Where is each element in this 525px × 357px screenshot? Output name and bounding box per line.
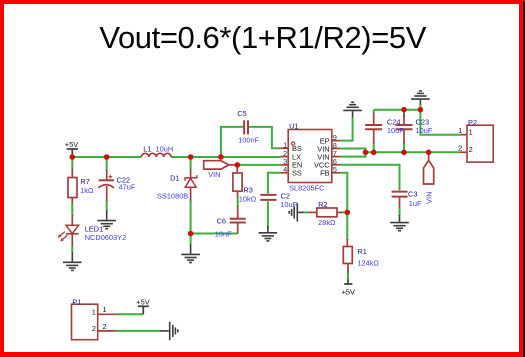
svg-text:2: 2 bbox=[92, 324, 96, 333]
wire C24 top lead upper bbox=[373, 110, 375, 115]
wire VIN pin 8 to output rail bbox=[340, 149, 366, 153]
ground under C2 bbox=[259, 226, 278, 241]
ground left of R2 (rotated, opens right) bbox=[289, 203, 303, 222]
node C24 rail junction bbox=[371, 150, 377, 156]
resistor R1 bbox=[343, 239, 352, 273]
svg-text:10kΩ: 10kΩ bbox=[239, 195, 257, 204]
capacitor C24 bbox=[365, 114, 382, 145]
svg-text:P1: P1 bbox=[72, 298, 81, 307]
wire C5 loop: riser, top run into left plate bbox=[221, 127, 243, 157]
node C23 rail junction bbox=[401, 150, 407, 156]
power +5V symbol at P1 pin1 bbox=[138, 306, 149, 314]
node D1 junction bbox=[188, 154, 194, 160]
node C5 riser junction bbox=[218, 154, 224, 160]
svg-text:10uF: 10uF bbox=[387, 126, 404, 135]
node VIN flag rail junction bbox=[426, 150, 432, 156]
connector P1 bbox=[72, 304, 116, 340]
svg-text:P2: P2 bbox=[468, 118, 477, 127]
svg-text:+5V: +5V bbox=[136, 297, 149, 306]
border frame bottom bbox=[0, 352, 525, 357]
svg-text:10uF: 10uF bbox=[416, 126, 433, 135]
node FB/R2 junction bbox=[345, 210, 351, 216]
wire D1 anode down to ground bbox=[190, 200, 192, 246]
svg-text:1: 1 bbox=[92, 307, 96, 316]
border frame top bbox=[0, 0, 525, 4]
wire D1 cathode drop from rail bbox=[190, 157, 192, 170]
svg-text:2: 2 bbox=[458, 144, 462, 153]
LED LED1 bbox=[58, 215, 79, 247]
node bus/ground/P2 junction bbox=[418, 107, 424, 113]
wire VCC pin 6 to C3 bbox=[340, 165, 400, 191]
wire R2 left lead from ground bbox=[303, 211, 310, 213]
diode D1 (schottky) bbox=[185, 169, 197, 201]
svg-text:NCD0603Y2: NCD0603Y2 bbox=[85, 233, 127, 242]
power +5V symbol top-left bbox=[67, 149, 78, 155]
wire R3 bottom lead segment bbox=[237, 197, 239, 208]
wire C23 bottom lead to rail bbox=[403, 143, 405, 152]
svg-text:100nF: 100nF bbox=[238, 136, 259, 145]
svg-text:10uH: 10uH bbox=[156, 145, 174, 154]
resistor R2 (horizontal) bbox=[308, 208, 343, 217]
svg-text:SS: SS bbox=[292, 169, 302, 178]
svg-text:1: 1 bbox=[458, 126, 462, 135]
svg-text:R3: R3 bbox=[243, 186, 252, 195]
wire LED cathode to ground bbox=[71, 246, 73, 254]
svg-text:10nF: 10nF bbox=[215, 229, 232, 238]
svg-text:SS1080B: SS1080B bbox=[157, 191, 188, 200]
wire top cap bus C24 to gnd riser bbox=[374, 109, 421, 111]
ground right of P1 pin2 (rotated, opens left) bbox=[160, 322, 178, 341]
node VIN/R3/EN junction bbox=[235, 162, 241, 168]
svg-text:2: 2 bbox=[469, 145, 473, 154]
svg-text:1kΩ: 1kΩ bbox=[80, 186, 94, 195]
node C22 junction bbox=[104, 154, 110, 160]
wire R7 top lead drop bbox=[71, 157, 73, 169]
wire R7 to LED segment bbox=[71, 202, 73, 217]
wire +5V rail from R7 top node to U1 LX pin2 (left part) bbox=[72, 156, 141, 158]
inductor L1 bbox=[142, 153, 172, 157]
wire +5V rail right of L1 into LX pin 2 bbox=[171, 156, 280, 158]
wire bus to P2 pin 1 bbox=[420, 110, 459, 135]
op-amp U1 body SL8205FC bbox=[280, 130, 340, 183]
capacitor C2 bbox=[260, 195, 276, 200]
node C23 top bus junction bbox=[401, 107, 407, 113]
border frame right bbox=[519, 0, 523, 357]
svg-text:5: 5 bbox=[333, 165, 337, 174]
svg-text:C5: C5 bbox=[237, 109, 246, 118]
wire P1 pin2 to ground bbox=[115, 330, 161, 332]
net flag VIN (horizontal, near R3) bbox=[204, 161, 238, 169]
power +5V symbol below R1 bbox=[344, 280, 352, 285]
svg-text:2: 2 bbox=[103, 322, 107, 331]
connector P2 bbox=[460, 125, 493, 162]
svg-text:FB: FB bbox=[320, 169, 330, 178]
ground above U1 EP (inverted) bbox=[343, 102, 362, 117]
svg-text:1: 1 bbox=[469, 127, 473, 136]
wire C3 bottom lead bbox=[399, 207, 401, 216]
resistor R3 bbox=[233, 165, 242, 198]
wire P1 pin1 to +5V bbox=[115, 313, 143, 315]
svg-text:SL8205FC: SL8205FC bbox=[289, 184, 325, 193]
svg-text:U1: U1 bbox=[289, 121, 298, 130]
svg-text:VIN: VIN bbox=[208, 170, 220, 179]
ground under LED1 bbox=[63, 253, 82, 271]
capacitor C6 bbox=[230, 206, 246, 234]
svg-text:C6: C6 bbox=[217, 216, 226, 225]
wire C22 top lead drop bbox=[106, 157, 108, 171]
wire R2 right lead to FB node bbox=[342, 211, 348, 213]
node VIN pins to rail junction bbox=[363, 150, 369, 156]
ground under C3 bbox=[390, 215, 409, 231]
ground under C22 bbox=[97, 211, 116, 229]
net flag VIN (vertical, right) bbox=[424, 152, 434, 184]
capacitor C23 bbox=[396, 114, 413, 145]
svg-text:R1: R1 bbox=[357, 247, 366, 256]
svg-text:10uF: 10uF bbox=[280, 200, 297, 209]
wire C2 bottom lead bbox=[267, 201, 269, 227]
ground under D1 bbox=[181, 245, 200, 263]
wire C22 to ground segment bbox=[106, 200, 108, 212]
resistor R7 bbox=[68, 168, 77, 203]
svg-text:Vout=0.6*(1+R1/R2)=5V: Vout=0.6*(1+R1/R2)=5V bbox=[99, 20, 426, 55]
svg-text:1: 1 bbox=[103, 305, 107, 314]
svg-text:28kΩ: 28kΩ bbox=[318, 218, 336, 227]
wire VIN pin 7 to output rail bbox=[340, 152, 366, 156]
wire C23 top lead to bus bbox=[403, 110, 405, 117]
wire EP pin 9 to top ground bbox=[340, 117, 353, 141]
svg-text:C2: C2 bbox=[281, 192, 290, 201]
svg-text:L1: L1 bbox=[143, 145, 151, 154]
wire C6 bottom to D1 anode line bbox=[191, 233, 238, 235]
svg-text:124kΩ: 124kΩ bbox=[357, 259, 379, 268]
svg-text:+5V: +5V bbox=[65, 140, 78, 149]
border frame left bbox=[0, 0, 4, 357]
wire C24 bottom lead to rail bbox=[373, 143, 375, 152]
capacitor C22 (polarized) bbox=[98, 170, 114, 201]
wire output rail to P2 pin 2 bbox=[366, 151, 460, 153]
svg-text:VIN: VIN bbox=[425, 192, 434, 204]
svg-text:4: 4 bbox=[283, 165, 287, 174]
svg-text:1uF: 1uF bbox=[409, 199, 422, 208]
wire R1 bottom lead bbox=[347, 272, 349, 281]
svg-text:D1: D1 bbox=[170, 174, 179, 183]
border frame right black strip bbox=[523, 2, 525, 357]
wire FB pin 5 down to R1 bbox=[340, 173, 347, 240]
node D1/C6 ground junction bbox=[188, 231, 194, 237]
svg-text:47uF: 47uF bbox=[119, 182, 136, 191]
ground above C23 bus (inverted) bbox=[411, 91, 430, 105]
svg-text:R2: R2 bbox=[318, 200, 327, 209]
svg-text:+5V: +5V bbox=[342, 287, 355, 296]
capacitor C3 bbox=[392, 192, 408, 208]
wire C5 right plate to BS pin 1 bbox=[249, 127, 280, 148]
capacitor C5 (horizontal) bbox=[244, 120, 248, 134]
wire VIN node to EN pin 3 bbox=[237, 164, 280, 166]
wire SS pin 4 to C2 top bbox=[268, 173, 280, 194]
svg-text:C3: C3 bbox=[408, 189, 417, 198]
node +5V/R7 junction bbox=[70, 154, 76, 160]
wire bus to top ground riser bbox=[419, 104, 421, 110]
